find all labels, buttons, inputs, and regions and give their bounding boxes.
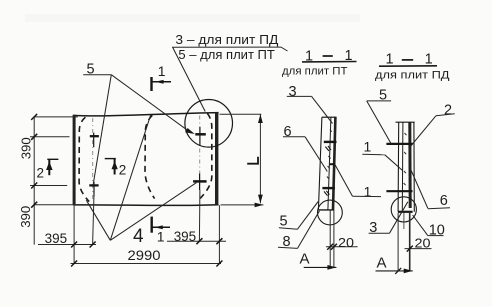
section marker 2 inner bbox=[105, 159, 127, 178]
L letter (rotated) bbox=[247, 157, 258, 164]
dashed void right bbox=[200, 113, 212, 198]
PD loop tick lower bbox=[386, 190, 412, 192]
ext line bottom for L bbox=[221, 204, 264, 206]
svg-text:395: 395 bbox=[174, 229, 197, 244]
section marker 1 bottom bbox=[152, 217, 170, 245]
L dim vertical bbox=[259, 114, 261, 203]
PD strip dark bar bbox=[408, 122, 411, 208]
PT detail circle bbox=[318, 200, 343, 225]
ext vertical right loop column bbox=[198, 190, 201, 241]
PT strip top edge bbox=[322, 116, 337, 118]
label 10 underline bbox=[428, 235, 444, 237]
leader 5 right bbox=[367, 101, 391, 144]
svg-text:5: 5 bbox=[280, 214, 288, 230]
PD ext vertical left bbox=[397, 213, 399, 271]
svg-text:395: 395 bbox=[45, 231, 68, 246]
PT loop tick lower bbox=[322, 187, 335, 189]
svg-text:4: 4 bbox=[133, 226, 144, 247]
leader 10 right bbox=[413, 215, 428, 236]
dashed void middle bbox=[145, 115, 155, 198]
svg-text:2990: 2990 bbox=[128, 247, 161, 263]
svg-text:1: 1 bbox=[364, 183, 372, 199]
label 1 lower underline bbox=[353, 195, 382, 197]
label 1 upper underline bbox=[362, 153, 385, 156]
dim ticks bbox=[31, 114, 222, 267]
PD view arrow line A bbox=[376, 270, 413, 272]
L dimension right of plan bbox=[220, 114, 264, 205]
label 8 underline bbox=[278, 247, 298, 248]
svg-text:6: 6 bbox=[440, 193, 448, 209]
svg-text:А: А bbox=[300, 250, 310, 267]
centerline right loop column bbox=[199, 116, 201, 198]
PT mesh specks bbox=[327, 130, 332, 180]
PD dim line 20 bbox=[405, 248, 432, 250]
PT ext vertical outer bbox=[333, 210, 335, 267]
fan leader to bottom-right loop bbox=[110, 183, 196, 241]
PT 20 ticks bbox=[327, 244, 337, 250]
title underline left bbox=[302, 61, 357, 63]
label 3 underline bbox=[369, 232, 390, 234]
leader 6 right bbox=[411, 169, 428, 208]
rebar nub at leader 1 target bbox=[330, 163, 335, 165]
PT ext vertical inner bbox=[329, 210, 331, 267]
PD mesh specks bbox=[404, 133, 407, 185]
svg-text:390: 390 bbox=[20, 137, 34, 159]
PT loop hook upper bbox=[325, 146, 331, 151]
dim line 2990 bbox=[71, 263, 222, 265]
PD 20 ticks bbox=[407, 246, 413, 252]
ext line top edge left bbox=[34, 116, 78, 118]
label 6 underline bbox=[283, 136, 305, 138]
ext vertical plan left edge bbox=[73, 205, 75, 263]
PT strip left edge bbox=[318, 117, 322, 210]
PD detail circle bbox=[391, 197, 416, 222]
label 5 underline bbox=[279, 228, 298, 230]
PT dim line 20 bbox=[326, 246, 358, 248]
lifting loop bottom-left bbox=[89, 182, 98, 197]
svg-text:1: 1 bbox=[364, 139, 372, 155]
PD strip top edge bbox=[396, 121, 415, 123]
fan leader to left void bottom bbox=[86, 200, 110, 240]
svg-text:390: 390 bbox=[19, 206, 33, 228]
plan bottom edge bbox=[74, 204, 219, 207]
PD strip bottom edge bbox=[398, 211, 413, 213]
plan top edge bbox=[74, 113, 219, 116]
leader 5 to top-right loop bbox=[111, 75, 191, 134]
PT view arrowhead bbox=[327, 265, 336, 270]
label 5 underline bbox=[367, 100, 391, 102]
lifting loop top-left bbox=[90, 133, 99, 148]
section marker 2 left bbox=[37, 159, 59, 180]
arrow right at bottom ext bbox=[255, 203, 264, 208]
note leader to detail circle bbox=[173, 48, 205, 112]
L arrow down bbox=[258, 195, 263, 204]
plan left edge rib bbox=[73, 115, 76, 206]
PT loop hook lower bbox=[324, 191, 329, 196]
label 2 underline bbox=[436, 114, 455, 116]
dim line 395 right bbox=[167, 240, 226, 242]
svg-text:для плит ПТ: для плит ПТ bbox=[282, 65, 348, 77]
PD ext vertical right bbox=[403, 213, 405, 229]
leader 3 bbox=[312, 96, 333, 123]
leader 5 bbox=[298, 202, 319, 230]
label 5 underline bbox=[83, 74, 111, 76]
PD view arrowhead bbox=[404, 269, 413, 274]
PD strip right edge bbox=[413, 122, 415, 212]
svg-text:1: 1 bbox=[158, 63, 166, 79]
PD loop tick upper bbox=[386, 143, 412, 145]
PD ext vertical mid bbox=[409, 213, 411, 271]
svg-text:2: 2 bbox=[37, 166, 45, 181]
leader 6 bbox=[305, 137, 327, 172]
dashed void left bbox=[79, 117, 89, 201]
leader 8 bbox=[298, 211, 320, 249]
PT loop tick upper bbox=[324, 141, 337, 143]
PT strip right band bbox=[333, 117, 335, 210]
leader 1 upper bbox=[385, 155, 403, 171]
leader 5 to bottom-left loop bbox=[93, 75, 111, 184]
svg-text:6: 6 bbox=[284, 124, 292, 140]
svg-text:3 – для плит ПД: 3 – для плит ПД bbox=[175, 33, 279, 47]
centerline left loop column bbox=[92, 118, 94, 199]
svg-text:1: 1 bbox=[386, 52, 394, 68]
ext line bottom edge left bbox=[34, 204, 78, 206]
note underline bbox=[172, 47, 288, 51]
PD strip thin inner line bbox=[401, 122, 404, 211]
lifting loop top-right bbox=[195, 127, 206, 146]
lifting loop bottom-right bbox=[193, 174, 207, 191]
section marker 1 top bbox=[152, 63, 172, 91]
PD strip left edge bbox=[397, 122, 400, 212]
faint scan band top bbox=[25, 14, 360, 22]
title underline right bbox=[379, 65, 437, 67]
leader 1 lower bbox=[335, 165, 353, 197]
fan leader to middle void top bbox=[110, 115, 150, 241]
ext vertical left loop column bbox=[93, 194, 94, 245]
PT strip bottom edge bbox=[318, 209, 334, 211]
label 6 underline bbox=[428, 208, 450, 209]
ext line lower loop row bbox=[30, 185, 67, 187]
PT strip inner line bbox=[328, 117, 331, 209]
svg-text:20: 20 bbox=[415, 237, 431, 251]
plan right edge rib bbox=[215, 113, 218, 206]
ext line top for L bbox=[220, 113, 262, 115]
dim vertical line left bbox=[33, 117, 35, 245]
leader 3 right bbox=[390, 202, 408, 233]
svg-text:А: А bbox=[377, 255, 387, 272]
label 3 underline bbox=[287, 95, 312, 97]
svg-text:1: 1 bbox=[157, 229, 165, 245]
svg-text:2: 2 bbox=[444, 102, 452, 118]
L arrow up bbox=[258, 114, 263, 123]
leader 2 right bbox=[410, 116, 436, 147]
arrowhead at top-right loop bbox=[185, 128, 195, 134]
detail circle on plan bbox=[185, 100, 233, 148]
PT view arrow line A bbox=[304, 266, 337, 268]
svg-text:2: 2 bbox=[119, 163, 127, 178]
ext line upper loop row bbox=[30, 136, 70, 138]
svg-text:20: 20 bbox=[338, 236, 354, 250]
ext vertical plan right edge bbox=[218, 205, 220, 263]
dim line 395 left bbox=[38, 244, 96, 246]
svg-text:3: 3 bbox=[289, 84, 297, 100]
svg-text:5 – для плит ПТ: 5 – для плит ПТ bbox=[178, 48, 275, 62]
svg-text:для плит ПД: для плит ПД bbox=[375, 69, 450, 81]
